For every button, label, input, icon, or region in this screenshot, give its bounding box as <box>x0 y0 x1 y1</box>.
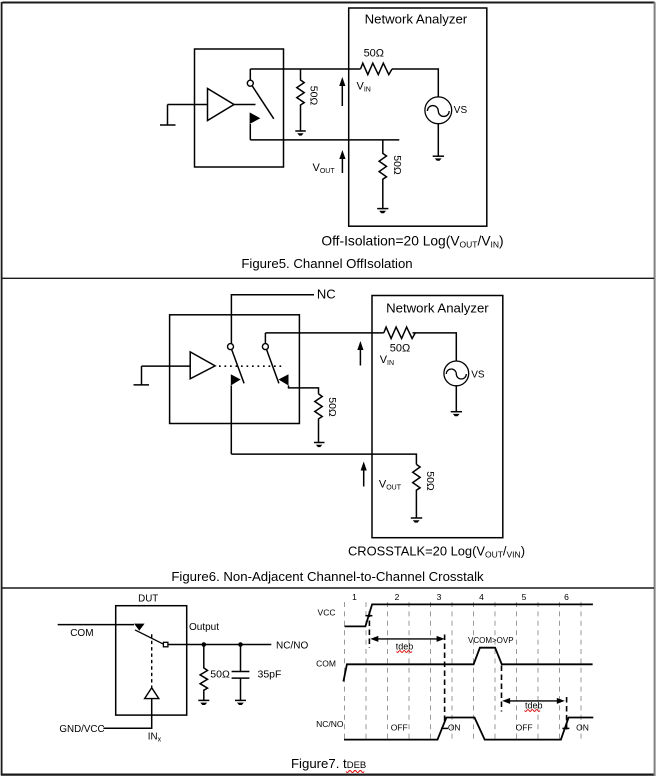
resistor 50ohm series (fig5 network analyzer) <box>361 63 393 74</box>
svg-text:tdeb: tdeb <box>396 641 414 651</box>
interval numbers 1-6 (timing diagram) <box>352 592 569 602</box>
wire (VS to ground, fig6) <box>455 386 457 412</box>
ground (VS, fig5) <box>433 156 444 161</box>
DUT box (fig7) <box>116 606 187 715</box>
DUT box (fig5) <box>195 49 284 167</box>
svg-text:NC/NO: NC/NO <box>276 640 308 651</box>
wire (S1 down through box to VOUT rail, fig6) <box>230 386 232 455</box>
svg-text:COM: COM <box>316 658 336 668</box>
control buffer triangle (fig7) <box>145 688 159 699</box>
wire COM input (fig7) <box>58 624 134 626</box>
junction node (output/resistor, fig7) <box>202 642 207 647</box>
svg-text:50Ω: 50Ω <box>308 86 320 106</box>
wire (series resistor to VS, fig6) <box>413 333 457 361</box>
switch blade (fig5) <box>252 86 274 119</box>
measurement arrow tdeb (first, timing) <box>370 636 444 642</box>
capacitor 35pF (fig7) <box>232 645 250 701</box>
svg-text:INx: INx <box>148 732 162 744</box>
arrow VIN measurement (fig6) <box>357 341 363 366</box>
arrow VOUT measurement (fig5) <box>339 150 345 173</box>
waveform COM (timing) <box>343 648 592 682</box>
svg-text:NC/NO: NC/NO <box>316 719 344 729</box>
ground (VS, fig6) <box>451 412 462 417</box>
waveform NC/NO (timing) <box>344 718 593 740</box>
svg-text:DUT: DUT <box>138 593 158 604</box>
junction node (output/capacitor, fig7) <box>238 642 243 647</box>
resistor 50ohm shunt (fig6) <box>315 394 322 442</box>
switch common arrow (fig7) <box>134 624 145 631</box>
svg-text:Figure5. Channel OffIsolation: Figure5. Channel OffIsolation <box>241 256 412 271</box>
svg-text:VOUT: VOUT <box>379 478 402 491</box>
arrow VOUT measurement (fig6) <box>361 462 367 487</box>
ground (fig7 capacitor) <box>235 700 246 705</box>
dotted wire (buffer to switches, fig6) <box>219 365 284 367</box>
wire VOUT rail (fig6) <box>231 454 416 464</box>
svg-text:ON: ON <box>448 723 461 733</box>
resistor 50ohm shunt at switch output (fig5) <box>297 69 304 131</box>
svg-text:VCOM>OVP: VCOM>OVP <box>468 636 514 645</box>
ground (input source, fig6) <box>134 366 150 385</box>
resistor 50ohm at VOUT (fig6 network analyzer) <box>413 464 420 517</box>
dashed marker line at VCC rise (timing) <box>368 612 370 649</box>
ground (fig6 VOUT resistor) <box>411 518 422 523</box>
spellcheck squiggle under tdeb (second) <box>525 710 540 712</box>
resistor 50ohm at VOUT (fig5 network analyzer) <box>379 140 386 208</box>
svg-text:50Ω: 50Ω <box>326 397 338 417</box>
dashed marker line at NC/NO first rise (timing) <box>444 635 446 723</box>
spellcheck squiggle under tdeb (first) <box>397 651 412 653</box>
svg-text:VOUT: VOUT <box>313 162 336 175</box>
svg-text:VCC: VCC <box>318 608 336 618</box>
tick mark on NC/NO second rise (timing) <box>562 727 569 729</box>
ground (input source ground, fig5) <box>160 105 176 126</box>
grid (timing diagram dashed gridlines) <box>345 602 582 739</box>
svg-text:5: 5 <box>522 592 527 602</box>
Network Analyzer box (fig5) <box>349 8 487 226</box>
ground (fig5 shunt resistor) <box>295 131 306 136</box>
svg-text:ON: ON <box>576 723 589 733</box>
svg-text:VS: VS <box>454 105 468 116</box>
svg-text:50Ω: 50Ω <box>210 668 230 680</box>
svg-text:Off-Isolation=20 Log(VOUT/VIN): Off-Isolation=20 Log(VOUT/VIN) <box>321 234 503 250</box>
Network Analyzer box (fig6) <box>372 296 503 538</box>
dashed marker line at COM overvoltage end (timing) <box>501 666 503 712</box>
svg-text:6: 6 <box>564 592 569 602</box>
wire (S2 to shunt resistor, fig6) <box>289 386 319 394</box>
svg-text:OFF: OFF <box>516 723 533 733</box>
svg-text:35pF: 35pF <box>258 668 282 680</box>
page frame <box>2 2 654 4</box>
measurement arrow tdeb (second, timing) <box>502 698 565 704</box>
wire (series resistor to VS, fig5) <box>392 69 438 97</box>
wire (input to buffer, fig5) <box>168 104 208 106</box>
svg-text:CROSSTALK=20 Log(VOUT/VIN): CROSSTALK=20 Log(VOUT/VIN) <box>348 544 525 560</box>
svg-text:50Ω: 50Ω <box>390 343 410 355</box>
switch S2 contact circle (fig6) <box>262 344 268 350</box>
svg-text:VIN: VIN <box>357 80 371 93</box>
source VS (fig6) <box>444 361 469 386</box>
source VS (fig5) <box>425 97 452 124</box>
ground (fig7 resistor) <box>198 700 209 705</box>
svg-text:tdeb: tdeb <box>525 700 543 710</box>
wire VIN rail (fig6) <box>265 332 383 334</box>
spellcheck squiggle under tDEB caption <box>346 771 364 773</box>
svg-text:VS: VS <box>471 370 485 381</box>
svg-text:COM: COM <box>70 628 93 639</box>
arrow VIN measurement (fig5) <box>339 77 345 106</box>
svg-text:50Ω: 50Ω <box>364 48 384 60</box>
svg-text:2: 2 <box>395 592 400 602</box>
svg-text:VIN: VIN <box>380 354 394 367</box>
svg-text:OFF: OFF <box>391 723 408 733</box>
ground (fig6 shunt resistor) <box>314 443 325 448</box>
switch common arrow (fig5) <box>250 112 261 124</box>
svg-text:Network Analyzer: Network Analyzer <box>386 301 489 316</box>
waveform VCC (timing) <box>345 604 593 626</box>
svg-text:4: 4 <box>479 592 484 602</box>
switch S1 contact circle (fig6) <box>228 344 234 350</box>
wire (switch contact up to VIN rail, fig5) <box>249 69 251 80</box>
ground (fig5 VOUT resistor) <box>377 209 388 214</box>
switch S1 common arrow (fig6) <box>231 374 241 385</box>
tick mark on NC/NO first rise (timing) <box>441 727 448 729</box>
wire VOUT rail (fig5) <box>250 139 399 141</box>
resistor 50ohm series (fig6 network analyzer) <box>384 327 416 338</box>
switch blade (fig7) <box>135 630 164 644</box>
wire (buffer output to switch pole, fig5) <box>234 104 256 106</box>
buffer amplifier (fig6) <box>190 352 215 379</box>
svg-text:NC: NC <box>317 287 336 302</box>
svg-text:Figure6. Non-Adjacent Channel-: Figure6. Non-Adjacent Channel-to-Channel… <box>171 569 484 584</box>
wire NC stub (fig6) <box>231 295 314 344</box>
svg-text:Network Analyzer: Network Analyzer <box>365 12 468 27</box>
wire (S2 contact up to VIN rail, fig6) <box>264 333 266 344</box>
resistor 50ohm load (fig7) <box>200 645 207 701</box>
switch S2 common arrow (fig6) <box>279 374 289 385</box>
dashed marker line at NC/NO second rise (timing) <box>566 697 568 731</box>
svg-text:50Ω: 50Ω <box>424 471 436 491</box>
svg-text:Figure7. tDEB: Figure7. tDEB <box>291 756 366 771</box>
tick mark on VCC rise (timing) <box>365 615 372 617</box>
DUT box (fig6) <box>170 315 300 424</box>
wire INx (fig7) <box>103 699 151 729</box>
buffer amplifier (fig5) <box>208 89 235 121</box>
switch throw contact circle (fig5) <box>247 80 253 86</box>
wire (VS to ground, fig5) <box>437 124 439 156</box>
svg-text:Output: Output <box>189 622 219 633</box>
switch S1 blade (fig6) <box>232 350 244 384</box>
wire VIN rail (fig5) <box>250 68 360 70</box>
svg-text:1: 1 <box>352 592 357 602</box>
svg-text:3: 3 <box>437 592 442 602</box>
wire (input to buffer, fig6) <box>142 365 191 367</box>
wire Output (fig7) <box>168 644 271 646</box>
switch S2 blade (fig6) <box>267 350 279 384</box>
dashed control wire (fig7) <box>151 634 153 687</box>
switch throw contact square (fig7) <box>163 642 168 647</box>
wire (switch arrow down to VOUT rail, fig5) <box>249 124 251 140</box>
svg-text:GND/VCC: GND/VCC <box>59 724 104 735</box>
svg-text:50Ω: 50Ω <box>391 155 403 175</box>
